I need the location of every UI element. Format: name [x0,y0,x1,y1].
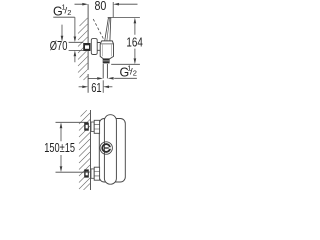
lower union embedded elbow (dark with white centre) [84,169,89,177]
mixer back plate (front view, wide rounded rect) [99,119,125,183]
dimension 61: right arrow [103,86,112,89]
dimension 80: right extension line [112,2,114,17]
body inner highlight lines [102,45,111,57]
dimension 150±15: line and arrows [60,122,63,172]
handle swing dash-dot line [93,19,104,40]
dimension 61: left arrow [79,86,89,89]
svg-text:164: 164 [126,35,142,49]
dimension 80: right arrow and tail [113,3,137,6]
short down arrow A [61,25,64,42]
dimension 164: line and arrows [134,18,137,65]
lower union collar [91,169,94,178]
svg-text:80: 80 [94,0,106,13]
svg-text:Ø70: Ø70 [50,39,68,53]
mixer body tube (front view, narrow tall rounded rect) [104,115,116,185]
wall hatching (front view) [79,110,90,190]
hose coupling nut (dark) [103,59,110,64]
wall line with 80-dim extension (top side view) [87,4,89,93]
lever handle [105,18,111,41]
lower union hex nut [94,167,99,180]
leader line from wall with right arrow at hose [88,77,103,80]
diameter 70 lower arrow (pointing up) with tail [74,50,77,62]
svg-text:2: 2 [133,69,137,78]
G 1/2 bottom underline leader with left arrow [108,77,137,80]
logo circle on capsule [100,142,112,154]
dimension 150±15: upper extension line [56,121,89,123]
upper union collar [91,122,94,131]
svg-text:150±15: 150±15 [44,141,75,155]
G 1/2 leader down to diameter-70 upper arrow [74,17,77,42]
dimension 164: top extension line [108,17,140,19]
body cap line [100,43,113,45]
shower hose tube [103,64,107,79]
svg-text:2: 2 [67,8,71,17]
dimension 80: left arrow [75,3,89,6]
wall face line (front view) [90,110,92,190]
G 1/2 top-left underline [53,16,74,18]
inlet fitting in wall (dark block with white centre) [83,43,90,51]
dimension 61: hose extension line [102,80,104,93]
dimension 164: bottom extension line [111,63,140,65]
wall hatching (top side view) [78,18,88,80]
neck between escutcheon and body [97,43,100,51]
upper union hex nut [94,120,99,133]
upper union embedded elbow (dark with white centre) [84,123,89,131]
diameter 70 extension lines [69,42,84,50]
svg-text:61: 61 [91,81,101,95]
valve body (side view) [100,41,113,59]
dimension 150±15: lower extension line [56,171,89,173]
escutcheon (flange edge-on) [91,39,97,55]
